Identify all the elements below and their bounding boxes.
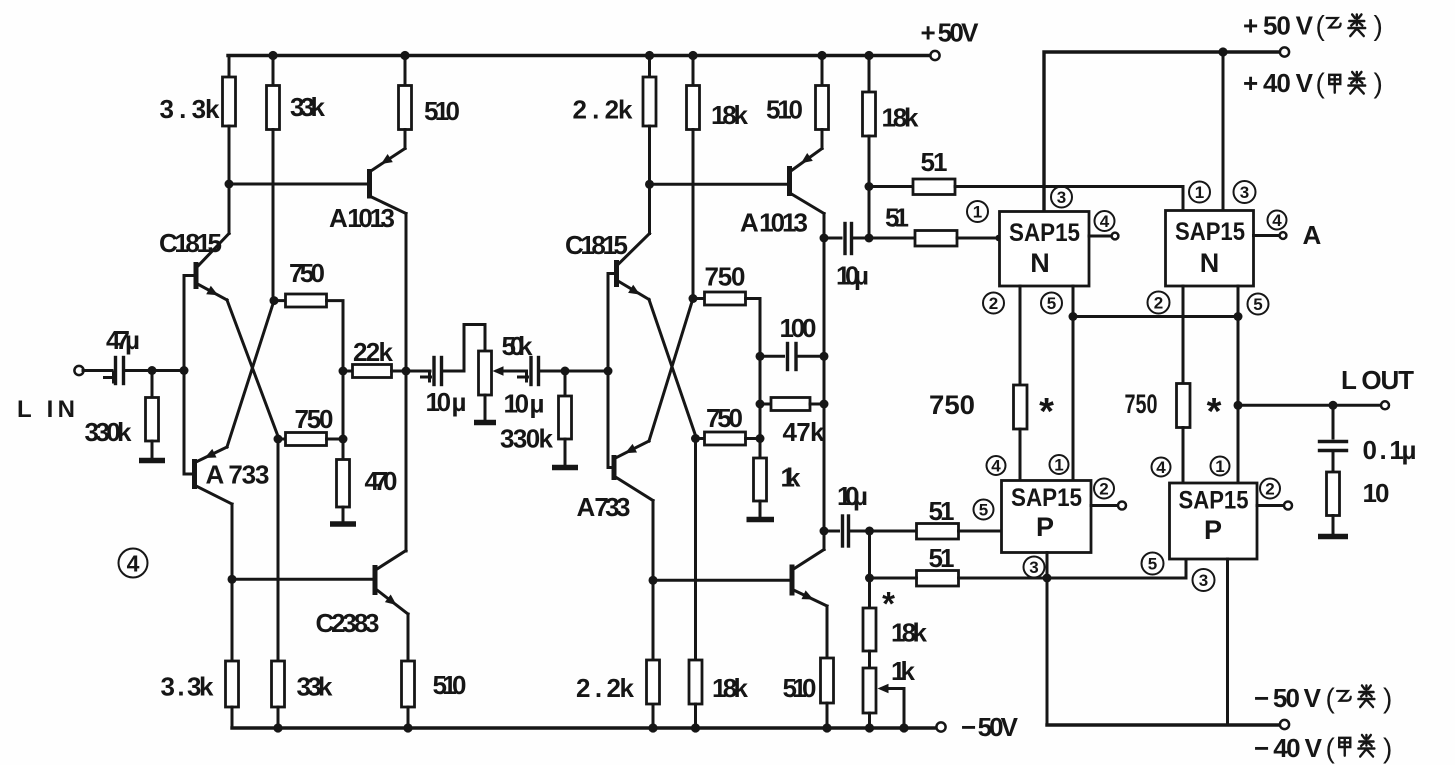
node 750 lower-left junction [274, 435, 283, 444]
svg-text:510: 510 [433, 670, 467, 700]
pin label 3 left N [1051, 187, 1072, 208]
ground below 1k mid [747, 517, 775, 523]
resistor 18k star [863, 585, 928, 668]
svg-text:3: 3 [1199, 571, 1208, 590]
capacitor 10u first [422, 358, 467, 418]
resistor 51 first [869, 147, 955, 195]
svg-text:*: * [1207, 391, 1222, 433]
svg-text:3: 3 [1057, 188, 1066, 207]
resistor 750 upper mid [693, 262, 760, 459]
wire N pin5 cross link [1073, 315, 1238, 318]
svg-text:750: 750 [295, 404, 334, 434]
svg-text:510: 510 [783, 673, 817, 703]
svg-text:): ) [1383, 683, 1392, 714]
svg-text:P: P [1204, 515, 1222, 545]
transistor A733 mid [577, 441, 654, 522]
wire 51 first to right SAP15N pin1 [955, 187, 1183, 211]
svg-text:(: ( [1326, 733, 1336, 764]
svg-text:100: 100 [780, 313, 817, 343]
svg-text:): ) [1374, 10, 1383, 41]
wire A733 mid collector column [652, 501, 655, 729]
svg-text:2: 2 [1099, 480, 1108, 499]
svg-text:4: 4 [1156, 458, 1166, 477]
wire right N pin5 column [1237, 286, 1240, 483]
svg-text:51: 51 [929, 496, 955, 526]
svg-text:330k: 330k [85, 417, 133, 447]
resistor 1k mid [754, 458, 802, 518]
resistor 330k input [85, 371, 159, 459]
svg-text:510: 510 [766, 95, 803, 125]
node 10u lower left junction [820, 527, 829, 536]
node bottom rail junctions left [273, 723, 282, 732]
svg-text:SAP15: SAP15 [1009, 219, 1080, 247]
svg-text:): ) [1383, 733, 1392, 764]
resistor 750 upper left [274, 258, 343, 460]
capacitor 0.1u [1320, 405, 1417, 465]
pin label 4 right N [1268, 211, 1287, 231]
svg-text:4: 4 [1272, 211, 1282, 230]
svg-text:A 1013: A 1013 [329, 203, 395, 233]
wire cap2 to mid base column [539, 370, 609, 373]
resistor 2.2k top [573, 56, 657, 234]
op-amp/module U4 SAP15 P right [1170, 483, 1258, 559]
terminal -50V [936, 722, 945, 731]
svg-text:1: 1 [1195, 183, 1204, 202]
svg-text:3: 3 [1240, 183, 1249, 202]
svg-text:C1815: C1815 [565, 230, 628, 260]
ground below 50k [474, 420, 496, 426]
svg-text:50k: 50k [502, 331, 534, 361]
node zobel junction [1329, 401, 1338, 410]
svg-text:): ) [1374, 68, 1383, 99]
capacitor 47u [106, 325, 140, 384]
resistor 3.3k top [160, 56, 236, 234]
pin label 1 right P [1211, 457, 1230, 477]
transistor A1013 left [329, 149, 406, 234]
svg-text:2 . 2k: 2 . 2k [573, 95, 634, 125]
resistor 750 left pair [929, 385, 1054, 481]
svg-text:C2383: C2383 [316, 608, 380, 638]
wire cap to 50k pot top [442, 325, 486, 372]
op-amp/module U3 SAP15 P left [1002, 481, 1092, 553]
wire base column mid [608, 274, 614, 468]
transistor A733 left [195, 447, 270, 504]
wire A1013 collector column [405, 214, 408, 552]
node base wire junction mid [645, 180, 654, 189]
svg-text:470: 470 [365, 466, 398, 496]
wire pin4 right N [1254, 234, 1280, 237]
pin label 5 right N [1248, 294, 1269, 315]
node 750 lower-mid junction [691, 434, 700, 443]
node input junction [148, 366, 157, 375]
svg-text:51: 51 [929, 543, 955, 573]
polarity tick 47u [105, 372, 116, 382]
svg-text:1k: 1k [781, 463, 802, 493]
node junction on +50V class-B rail [1218, 47, 1227, 56]
terminal L IN [74, 366, 83, 375]
svg-text:18k: 18k [891, 618, 928, 648]
pin label 4 left N [1095, 211, 1115, 231]
svg-text:− 50V: − 50V [961, 712, 1019, 742]
terminal L OUT [1381, 401, 1389, 409]
ground zobel [1318, 534, 1348, 540]
terminal -50V class-B [1280, 720, 1289, 729]
svg-text:*: * [882, 585, 895, 622]
node pin3 crossing junction [1043, 574, 1052, 583]
svg-text:+ 50 V: + 50 V [1243, 11, 1314, 41]
resistor 10 zobel [1327, 451, 1390, 535]
terminal +50V class-B [1280, 47, 1289, 56]
resistor 510 top left [399, 56, 461, 149]
svg-text:L IN: L IN [17, 396, 75, 423]
wiper 1k arrow [878, 684, 905, 728]
svg-text:18k: 18k [712, 673, 749, 703]
node bottom rail junctions mid [648, 723, 657, 732]
node rail junctions left [268, 51, 277, 60]
svg-text:N: N [1200, 248, 1220, 278]
svg-text:A 1013: A 1013 [740, 208, 808, 238]
ground below 330k [139, 458, 165, 464]
op-amp/module U2 SAP15 N right [1166, 211, 1254, 287]
wire pin2 right P [1257, 504, 1284, 507]
svg-text:+ 50V: + 50V [921, 18, 980, 48]
svg-text:750: 750 [705, 262, 746, 292]
node 750 upper-mid junction [689, 294, 698, 303]
svg-text:750: 750 [289, 258, 325, 288]
node rail junctions mid [645, 51, 654, 60]
wire A733 emitter diagonal to upper 750 [227, 301, 274, 447]
pin label 2 left N [983, 293, 1004, 314]
wire base A1013 mid [650, 183, 788, 186]
svg-text:3 . 3k: 3 . 3k [160, 94, 221, 124]
svg-text:2: 2 [989, 294, 998, 313]
svg-text:51: 51 [885, 203, 909, 233]
wire A733 mid emitter diagonal [649, 299, 693, 442]
wiper 50k arrow [493, 366, 527, 376]
wire base C2383 [232, 578, 373, 581]
svg-text:4: 4 [1100, 212, 1110, 231]
wire L OUT [1238, 404, 1381, 407]
wire pin3 right P to rail [1226, 559, 1229, 725]
resistor 18k top right [863, 56, 920, 239]
wire left N pin5 column [1072, 286, 1075, 481]
svg-text:(: ( [1316, 68, 1326, 99]
svg-text:4: 4 [991, 457, 1001, 476]
svg-text:750: 750 [929, 390, 975, 420]
node L OUT junction [1234, 401, 1243, 410]
node NPN base wire junction [649, 576, 658, 585]
terminal pin4 right N / node A [1280, 232, 1287, 239]
transistor C2383 [316, 551, 409, 639]
svg-text:A: A [1303, 220, 1322, 250]
wire A733 collector column [231, 504, 234, 728]
resistor 750 right pair [1125, 384, 1222, 484]
resistor 470 [337, 460, 398, 523]
pin label 5 left P [974, 500, 994, 520]
svg-text:22k: 22k [353, 337, 394, 367]
svg-text:*: * [1039, 391, 1054, 433]
wire C1815 emitter diagonal to lower 750 [227, 300, 279, 439]
wire base NPN mid [653, 579, 790, 582]
resistor 47k [760, 398, 825, 448]
svg-text:2 . 2k: 2 . 2k [576, 673, 635, 703]
pin label 3 right N [1234, 181, 1256, 203]
pin label 1 left N [967, 201, 988, 222]
terminal +50V [930, 51, 939, 60]
node base wire junction [225, 180, 234, 189]
resistor 33k top [267, 56, 326, 301]
svg-text:1k: 1k [891, 656, 916, 686]
pin label 2 right P [1260, 479, 1280, 499]
svg-text:(: ( [1326, 683, 1336, 714]
svg-text:51: 51 [921, 147, 948, 177]
terminal pin2 right P [1284, 502, 1292, 510]
transistor C1815 mid [565, 230, 650, 300]
svg-text:5: 5 [1148, 555, 1157, 574]
capacitor 10u upper [824, 224, 869, 291]
svg-text:− 50 V: − 50 V [1254, 683, 1322, 713]
pin label 1 left P [1050, 455, 1069, 475]
pin label 4 right P [1152, 458, 1171, 478]
capacitor 10u second [504, 358, 545, 419]
capacitor 100 [760, 313, 824, 370]
ground below 330k mid [552, 465, 578, 471]
wire cap to base column [124, 369, 185, 372]
node 330k mid junction [561, 367, 570, 376]
svg-text:5: 5 [1253, 295, 1262, 314]
pin label 5 right P [1142, 553, 1164, 575]
pin label 3 right P [1193, 569, 1215, 591]
svg-text:SAP15: SAP15 [1175, 218, 1245, 246]
node 10u upper left junction [820, 234, 829, 243]
svg-text:510: 510 [424, 96, 460, 126]
wire input to cap [83, 369, 112, 372]
resistor 510 bottom mid [783, 606, 834, 728]
svg-text:10: 10 [1363, 478, 1390, 508]
svg-text:0 . 1µ: 0 . 1µ [1363, 435, 1417, 465]
svg-text:A 733: A 733 [577, 492, 631, 522]
terminal pin2 left P [1118, 502, 1126, 510]
transistor C1815 left [159, 228, 229, 300]
node 22k left junction [339, 367, 348, 376]
node 750 upper-left junction [270, 296, 279, 305]
wire 10u node down [868, 531, 871, 608]
node column junctions mid [756, 352, 765, 361]
wire +50V top rail [228, 54, 930, 57]
potentiometer 1k [863, 656, 916, 728]
node 22k right junction [402, 367, 411, 376]
svg-text:330k: 330k [500, 424, 554, 454]
svg-text:33k: 33k [290, 92, 326, 122]
resistor 510 top mid [766, 56, 829, 149]
svg-text:10µ: 10µ [836, 261, 869, 291]
svg-text:10 µ: 10 µ [426, 387, 467, 417]
terminal pin4 left N [1112, 233, 1119, 240]
resistor 2.2k bottom [576, 660, 660, 704]
svg-text:1: 1 [1215, 457, 1224, 476]
node cross link junctions [1069, 312, 1078, 321]
wire right N pin2 to 750 [1182, 286, 1185, 384]
node 10u lower right junction [865, 527, 874, 536]
wire base column left [184, 276, 193, 475]
wire pin3 left P to rail [1046, 553, 1049, 726]
svg-text:47µ: 47µ [106, 325, 140, 355]
svg-text:750: 750 [1125, 389, 1158, 419]
wire left N pin2 to 750 [1019, 286, 1022, 385]
svg-text:10µ: 10µ [837, 481, 868, 511]
resistor 18k bottom mid [689, 439, 749, 729]
svg-text:1: 1 [973, 203, 982, 222]
node 47k right junction [820, 400, 829, 409]
ground below 470 [330, 521, 356, 527]
op-amp/module U1 SAP15 N left [1000, 212, 1090, 287]
capacitor 10u lower [824, 481, 870, 546]
wire 22k node to cap [406, 370, 430, 373]
wire -50V class-B bottom right rail [1047, 723, 1280, 726]
resistor 18k top [687, 56, 749, 299]
svg-text:18k: 18k [882, 103, 920, 133]
svg-text:1: 1 [1054, 456, 1063, 475]
resistor 51 third [870, 496, 1002, 539]
resistor 22k [343, 337, 406, 378]
transistor NPN mid-bottom [792, 550, 827, 607]
svg-text:5: 5 [979, 501, 988, 520]
svg-text:(: ( [1316, 10, 1326, 41]
wire +50V class-B right rail [1044, 52, 1280, 212]
svg-text:A 733: A 733 [206, 460, 270, 490]
svg-text:L OUT: L OUT [1341, 365, 1414, 395]
svg-text:N: N [1030, 248, 1050, 278]
wire C1815 mid emitter diagonal [649, 300, 697, 439]
svg-text:750: 750 [706, 403, 743, 433]
node 100 right junction [820, 352, 829, 361]
resistor 750 lower left [278, 404, 343, 446]
svg-text:10 µ: 10 µ [504, 389, 545, 419]
resistor 51 fourth [870, 543, 959, 586]
svg-text:4: 4 [127, 551, 140, 577]
pin label 1 right N [1189, 182, 1210, 203]
wire base A1013 left [229, 183, 367, 186]
svg-text:5: 5 [1047, 294, 1056, 313]
svg-text:− 40 V: − 40 V [1254, 733, 1323, 763]
node lower drive junction [865, 574, 874, 583]
pin label 4 left P [987, 456, 1006, 476]
svg-text:18k: 18k [711, 100, 749, 130]
svg-text:2: 2 [1154, 294, 1163, 313]
resistor 33k bottom [272, 439, 334, 728]
wire 51 fourth to right SAP15P pin5 [959, 559, 1187, 578]
pin label 3 left P [1024, 557, 1045, 578]
svg-text:SAP15: SAP15 [1011, 484, 1082, 512]
wire pin4 left N [1089, 235, 1111, 238]
pin label 2 right N [1148, 292, 1170, 314]
svg-text:SAP15: SAP15 [1179, 487, 1249, 515]
resistor 330k mid [500, 371, 572, 466]
node at left SAP15N pin1 [995, 235, 1001, 241]
svg-text:33k: 33k [297, 672, 334, 702]
potentiometer 50k [479, 331, 534, 421]
figure number 4 [119, 549, 148, 578]
wire right SAP15N pin3 drop [1222, 52, 1225, 211]
svg-text:+ 40 V: + 40 V [1243, 68, 1314, 98]
resistor 750 lower mid [696, 403, 761, 445]
pin label 5 left N [1041, 293, 1062, 314]
resistor 3.3k bottom [161, 661, 239, 728]
svg-text:C1815: C1815 [159, 228, 222, 258]
wire pin2 left P [1091, 504, 1118, 507]
pin label 2 left P [1094, 479, 1114, 499]
resistor 51 second [869, 203, 1000, 247]
wire -50V bottom rail [232, 726, 936, 729]
svg-text:3: 3 [1029, 558, 1038, 577]
node 18k right column junctions [865, 182, 874, 191]
wire A1013 mid collector column [823, 214, 826, 550]
svg-text:3 . 3k: 3 . 3k [161, 672, 215, 702]
node C2383 base wire junction [228, 575, 237, 584]
transistor A1013 mid [740, 149, 824, 238]
resistor 510 bottom left [402, 614, 467, 728]
svg-text:2: 2 [1265, 480, 1274, 499]
svg-text:P: P [1036, 512, 1054, 542]
svg-text:47k: 47k [783, 417, 826, 447]
